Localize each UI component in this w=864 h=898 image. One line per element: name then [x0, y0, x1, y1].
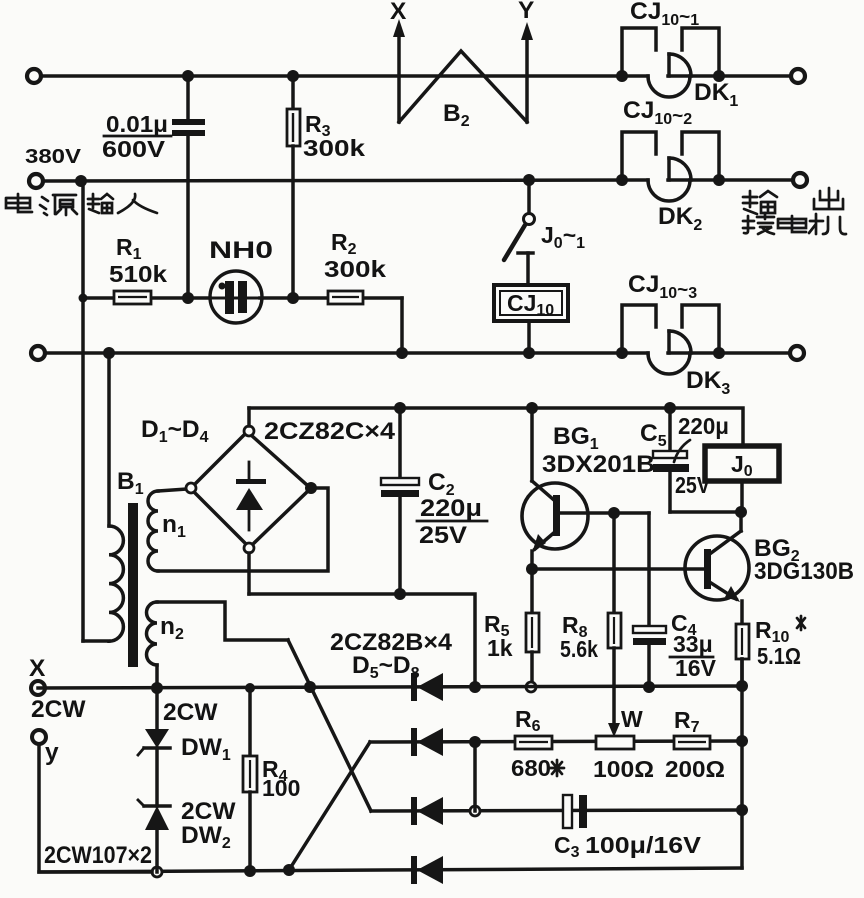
node base junction: [608, 507, 620, 519]
wire n1 bottom loop: [158, 488, 328, 571]
svg-text:X: X: [390, 0, 407, 25]
resistor R6 680: [511, 706, 564, 781]
wire minus bus: [249, 594, 475, 687]
svg-text:D5~D8: D5~D8: [352, 652, 420, 682]
capacitor C2 220u/25V: [381, 408, 487, 594]
svg-text:220μ: 220μ: [420, 495, 482, 522]
neon lamp NH0: [209, 237, 273, 323]
svg-text:380V: 380V: [25, 146, 82, 168]
terminal bus2 right: [793, 173, 807, 187]
svg-text:Y: Y: [518, 0, 534, 24]
wire row4: [39, 868, 742, 872]
glyph 输 (out): [743, 191, 777, 214]
terminal bus1 left: [27, 69, 41, 83]
diode inside bridge: [248, 462, 251, 480]
svg-text:5.6k: 5.6k: [560, 636, 598, 662]
node bus2 switch: [523, 174, 535, 186]
relay coil CJ10 box: [494, 285, 568, 353]
resistor R3 300k: [287, 76, 365, 298]
node row1 minus: [469, 681, 481, 693]
winding n2: [147, 602, 158, 665]
wire bus2 right: [668, 178, 793, 182]
wire bus2 left: [43, 180, 648, 181]
wire n2 top run: [157, 602, 288, 640]
wire R2 to bus3: [400, 298, 404, 353]
capacitor C3 100u/16V: [554, 795, 702, 861]
svg-text:100: 100: [262, 775, 300, 801]
node row2 right: [736, 735, 748, 747]
node row2 left: [469, 736, 481, 748]
winding n1: [148, 491, 158, 571]
svg-text:100μ/16V: 100μ/16V: [585, 832, 702, 858]
arrow X: [390, 0, 407, 122]
wire R1 row: [83, 296, 210, 300]
node bus1 contact left: [616, 70, 628, 82]
node bus2 drop: [75, 175, 87, 187]
node bus1-cap: [182, 70, 194, 82]
wire row2: [370, 741, 742, 742]
resistor R1 510k: [109, 234, 167, 304]
node row4 diagonal: [283, 864, 295, 876]
node bridge left: [186, 483, 196, 493]
node bus3 contact left: [616, 347, 628, 359]
svg-text:5.1Ω: 5.1Ω: [757, 643, 801, 669]
svg-text:200Ω: 200Ω: [665, 756, 725, 782]
node bridge bottom: [244, 543, 254, 553]
svg-text:0.01μ: 0.01μ: [106, 111, 168, 137]
wire bridge bottom to bus594: [247, 553, 251, 594]
svg-text:16V: 16V: [675, 655, 717, 681]
svg-text:NH0: NH0: [209, 237, 273, 264]
wire bridge top to rail: [247, 408, 251, 426]
node R1-left: [79, 294, 88, 303]
glyph 源: [40, 195, 77, 215]
diode D7: [411, 797, 443, 825]
node bus3 contact right: [713, 347, 725, 359]
diode D6: [411, 728, 443, 756]
wire dc rail: [249, 408, 743, 444]
node rail C5: [664, 402, 676, 414]
terminal bus2 left: [29, 174, 43, 188]
wire right rail: [740, 659, 744, 868]
contactor contact CJ10-2: [622, 97, 719, 234]
contactor contact CJ10-1: [622, 0, 738, 110]
node minus-C2: [394, 588, 406, 600]
node R1-right / cap bottom: [182, 292, 194, 304]
wire left drop x=83: [81, 181, 85, 641]
glyph 输: [88, 194, 113, 213]
capacitor 0.01u/600V: [102, 76, 205, 298]
wire row1: [38, 686, 742, 688]
wire bus1 right: [668, 74, 791, 78]
wire diagonal A: [288, 640, 371, 811]
arrow Y: [518, 0, 534, 122]
node bus2 contact right: [713, 174, 725, 186]
svg-text:300k: 300k: [324, 256, 386, 282]
node bus2 contact left: [616, 174, 628, 186]
node row4 y-wire (open): [152, 867, 162, 877]
node row1 R4: [245, 683, 255, 693]
wire primary bottom corner: [83, 639, 109, 643]
svg-text:680: 680: [511, 755, 551, 781]
node bus1 contact right: [713, 70, 725, 82]
resistor R7 200ohm: [665, 707, 725, 782]
svg-text:2CW: 2CW: [31, 696, 86, 723]
glyph 电 (motor): [778, 216, 806, 232]
node bus1-R3: [287, 70, 299, 82]
svg-text:1k: 1k: [487, 635, 513, 661]
node bridge top: [244, 426, 254, 436]
node bus3-R2: [396, 347, 408, 359]
node row3 left (open): [470, 806, 480, 816]
relay J0 box: [705, 446, 779, 512]
svg-text:2CZ82C×4: 2CZ82C×4: [264, 418, 395, 445]
contactor contact CJ10-3: [622, 271, 730, 398]
wire row3: [371, 810, 742, 811]
diode D5: [411, 673, 443, 701]
wire bus3 right: [668, 351, 790, 355]
node bus3-CJ10: [523, 347, 535, 359]
glyph 机: [809, 214, 846, 234]
core B1: [128, 503, 138, 667]
svg-text:510k: 510k: [109, 261, 167, 287]
node row1 diagonal: [304, 681, 316, 693]
svg-text:2CW: 2CW: [163, 699, 218, 726]
svg-text:220μ: 220μ: [678, 413, 729, 439]
svg-text:100Ω: 100Ω: [593, 756, 654, 782]
terminal bus3 left: [31, 346, 45, 360]
capacitor C5 220u/25V: [640, 408, 729, 512]
diamond edges: [251, 435, 307, 485]
wire row2-row3 link: [473, 742, 477, 811]
node row1 R10: [736, 680, 748, 692]
pulse transformer B2 zigzag: [399, 51, 527, 130]
node emitter BG1: [526, 563, 538, 575]
wire diagonal B: [289, 742, 370, 870]
node rail C2: [394, 402, 406, 414]
svg-text:D1~D4: D1~D4: [141, 416, 209, 446]
label dianyuan shuru 电源|输入: [6, 194, 157, 215]
node NH0-R3: [287, 292, 299, 304]
node rail BG1: [526, 402, 538, 414]
node row1 C4: [643, 681, 655, 693]
svg-text:2CW: 2CW: [181, 798, 236, 825]
glyph 接: [743, 213, 774, 234]
diode D8: [411, 856, 443, 884]
wire BG1 base: [560, 511, 649, 515]
wire C5 bottom bus: [670, 510, 741, 514]
glyph 出: [814, 188, 843, 209]
svg-text:3DX201B: 3DX201B: [542, 451, 655, 478]
resistor R2 300k: [324, 229, 386, 304]
label shuchu jiedianji 输出/接电机: [743, 188, 846, 234]
svg-text:300k: 300k: [303, 135, 365, 161]
svg-text:y: y: [45, 739, 59, 766]
svg-text:3DG130B: 3DG130B: [754, 558, 854, 585]
wire n2 bottom: [155, 665, 159, 688]
wire n1 top to bridge: [158, 489, 187, 491]
node row1 n2: [151, 682, 163, 694]
wire bus1 left: [41, 74, 648, 78]
wire bus3 left: [45, 351, 648, 355]
svg-text:25V: 25V: [419, 522, 468, 549]
svg-text:600V: 600V: [102, 136, 166, 162]
glyph 电: [6, 194, 32, 212]
glyph 入: [118, 194, 157, 213]
terminal bus3 right: [790, 346, 804, 360]
wire emitter row to BG2 base: [532, 567, 705, 571]
svg-text:2CW107×2: 2CW107×2: [44, 842, 152, 869]
node row3 right: [736, 804, 748, 816]
switch J0~1: [504, 180, 585, 285]
terminal bus1 right: [791, 69, 805, 83]
potentiometer W 100ohm: [593, 706, 654, 782]
wire primary top drop: [107, 353, 111, 526]
svg-text:W: W: [621, 706, 643, 732]
svg-text:33μ: 33μ: [673, 631, 713, 657]
svg-text:X: X: [29, 655, 46, 682]
winding primary: [109, 526, 123, 641]
node BG2 collector top: [735, 506, 747, 518]
node row1 R5 (open): [526, 682, 536, 692]
node row4 R4: [244, 865, 256, 877]
node bridge right: [305, 482, 317, 494]
